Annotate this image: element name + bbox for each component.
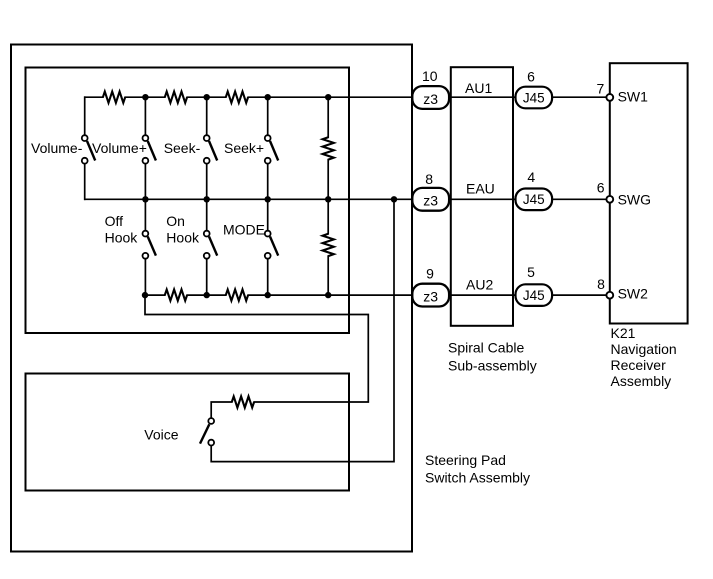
svg-text:8: 8 [597,276,605,292]
resistor vertical R6 [323,137,334,159]
svg-text:6: 6 [597,180,605,196]
connector z3 pin 8 [412,188,449,211]
svg-text:AU1: AU1 [465,80,492,96]
svg-text:Sub-assembly: Sub-assembly [448,357,537,373]
switch Seek- [204,135,217,163]
svg-text:EAU: EAU [466,181,495,197]
wire col2 row2 drop [144,199,146,230]
resistor row3 R5 [226,290,248,301]
svg-text:Seek-: Seek- [164,140,201,156]
wire col2 top drop [144,97,146,135]
svg-text:J45: J45 [523,192,545,207]
svg-text:Volume-: Volume- [31,140,83,156]
svg-text:Off: Off [105,213,124,229]
svg-text:9: 9 [426,266,434,282]
svg-text:AU2: AU2 [466,276,493,292]
wire resistor column upper leads [327,97,329,199]
wire col1 bottom drop [84,164,86,200]
wire row1 bus AU1 [85,96,610,98]
resistor voice R8 [232,396,254,407]
wire row2 bus EAU [85,198,610,200]
connector z3 pin 10 [412,86,449,109]
svg-text:K21: K21 [611,325,636,341]
box switch matrix inner [26,68,350,334]
resistor row1 R3 [226,92,248,103]
wire A from row3 to voice resistor [145,295,368,402]
svg-text:Hook: Hook [166,230,200,246]
wire col4 row2 bottom drop [267,259,269,295]
svg-text:Volume+: Volume+ [92,140,147,156]
connector J45 pin 5 [516,284,553,306]
resistor row3 R4 [165,290,187,301]
svg-text:Spiral Cable: Spiral Cable [448,340,524,356]
wire row3 bus AU2 [145,294,610,296]
svg-text:Steering Pad: Steering Pad [425,452,506,468]
box spiral cable sub-assembly [451,67,513,326]
connector J45 pin 6 [516,87,553,109]
switch On Hook [204,231,217,259]
box K21 navigation receiver assembly [610,63,688,323]
switch Voice [200,418,214,445]
wire B voice return to EAU [211,199,394,461]
svg-text:Hook: Hook [105,230,139,246]
box steering pad switch assembly outer [11,45,412,552]
connector z3 pin 9 [412,284,449,307]
svg-text:SW1: SW1 [618,88,649,104]
svg-text:On: On [166,213,185,229]
svg-text:Switch Assembly: Switch Assembly [425,469,530,485]
svg-text:MODE: MODE [223,221,265,237]
pin SW2 terminal 8 [606,292,613,299]
connector J45 pin 4 [516,189,553,211]
box voice inner [26,374,350,491]
switch Volume- [82,135,95,163]
svg-text:Navigation: Navigation [611,341,677,357]
wire col4 top drop [267,97,269,135]
svg-text:z3: z3 [423,91,438,107]
wire col3 row2 drop [206,199,208,230]
resistor row1 R2 [165,92,187,103]
svg-text:4: 4 [527,169,535,185]
svg-text:J45: J45 [523,288,545,303]
wire col3 row2 bottom drop [206,259,208,295]
svg-text:J45: J45 [523,90,545,105]
svg-text:Assembly: Assembly [611,373,672,389]
wire col3 bottom drop [206,164,208,200]
wire col2 bottom drop [144,164,146,200]
svg-text:5: 5 [527,264,535,280]
svg-text:10: 10 [422,68,438,84]
wire col4 bottom drop [267,164,269,200]
wire voice resistor to switch [211,402,232,418]
resistor vertical R7 [323,234,334,256]
pin SWG terminal 6 [606,196,613,203]
svg-text:SWG: SWG [618,191,651,207]
wire col3 top drop [206,97,208,135]
resistor row1 R1 [103,92,125,103]
wire col4 row2 drop [267,199,269,230]
junction dots row2 [142,196,397,202]
junction dots row3 [142,292,332,298]
junction dots row1 [142,94,331,100]
wire col2 row2 bottom drop [144,259,146,295]
svg-text:Seek+: Seek+ [224,140,264,156]
wire col1 top drop [84,97,86,135]
switch Seek+ [265,135,278,163]
svg-text:6: 6 [527,68,535,84]
switch Off Hook [143,231,156,259]
pin SW1 terminal 7 [606,94,613,101]
switch MODE [265,231,278,259]
svg-text:SW2: SW2 [618,286,649,302]
svg-text:Receiver: Receiver [611,357,667,373]
svg-text:8: 8 [425,171,433,187]
svg-text:7: 7 [597,81,605,97]
svg-text:Voice: Voice [144,426,178,442]
svg-text:z3: z3 [423,288,438,304]
wire resistor column lower leads [327,199,329,295]
switch Volume+ [143,135,156,163]
svg-text:z3: z3 [423,193,438,209]
